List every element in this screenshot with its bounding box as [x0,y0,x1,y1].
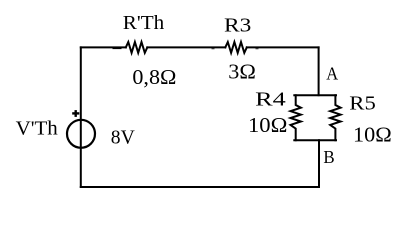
wire: left vertical branch through source [80,47,82,187]
resistor R3 [225,42,247,53]
resistor R'Th [126,42,148,53]
wire: node B down to bottom [318,140,320,187]
wire: bottom rail of parallel pair [294,139,336,141]
wire: R3 to top-right corner [247,46,319,48]
resistor R5 [330,95,340,140]
svg-text:R'Th: R'Th [123,12,164,34]
wire: right vertical from corner to node A [318,47,320,95]
polarity + sign [72,110,79,117]
svg-text:0,8Ω: 0,8Ω [132,65,176,89]
svg-text:V'Th: V'Th [16,117,58,139]
wire: top horizontal with resistor zigzags [81,46,126,48]
svg-text:B: B [323,147,334,167]
wire junction blip right of R3 [256,48,259,50]
svg-text:R5: R5 [349,93,376,115]
svg-text:8V: 8V [111,126,136,148]
svg-text:R4: R4 [255,88,286,110]
wire: top rail of parallel pair [294,94,336,96]
wire overlap artifact on top-left segment [113,48,122,50]
svg-text:R3: R3 [224,15,251,37]
svg-text:10Ω: 10Ω [353,123,392,147]
wire junction blip left of R3 [212,48,215,50]
svg-text:10Ω: 10Ω [248,113,287,137]
wire: bottom horizontal [81,186,319,188]
svg-text:3Ω: 3Ω [228,59,256,83]
resistor R4 [291,95,301,140]
voltage source V'Th circle [67,120,95,148]
svg-text:A: A [326,64,338,84]
wire: between R'Th and R3 [147,46,225,48]
